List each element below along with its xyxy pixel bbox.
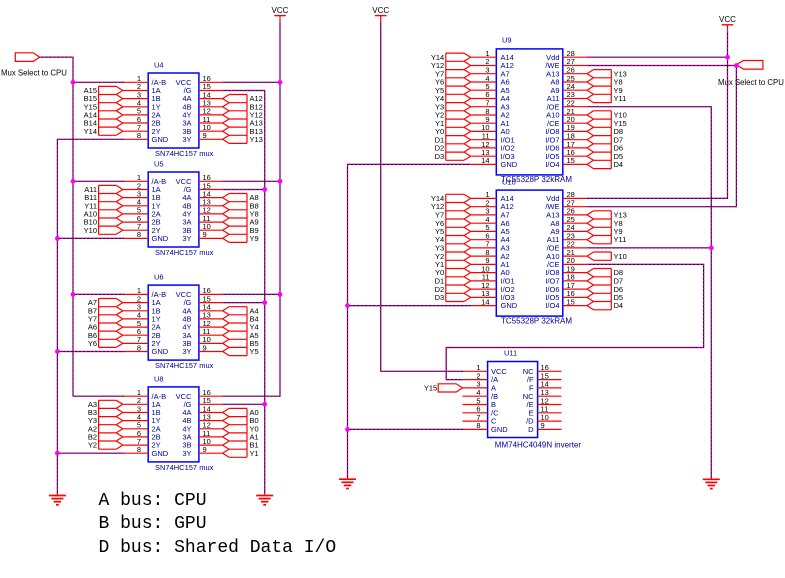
svg-text:Y5: Y5: [250, 347, 259, 356]
U10 pin 25 (A8): [550, 215, 587, 228]
wire: U9 pin28 branch: [587, 56, 728, 58]
U10 pin 9 (A1): [471, 256, 510, 269]
svg-text:Y11: Y11: [614, 235, 627, 244]
junction: GND net at U6 pin8: [55, 349, 60, 354]
U10 pin 12 (I/O2): [471, 281, 515, 294]
U10 pin 20 (/CE): [547, 256, 587, 269]
svg-text:D bus: Shared Data I/O: D bus: Shared Data I/O: [99, 538, 337, 558]
U8 pin 11 (3A): [182, 429, 222, 442]
U10 pin 21 (A10): [546, 248, 587, 261]
U10 pin 13 (I/O3): [471, 289, 515, 302]
wire: /OE net (U9 pin22, U10 pin22 to ground): [587, 107, 711, 478]
U10 pin 19 (I/O8): [545, 264, 587, 277]
svg-text:U6: U6: [154, 273, 164, 282]
U10 pin 24 (A9): [550, 223, 587, 236]
U10 pin 3 (A7): [471, 207, 510, 220]
U8 pin 15 (/G): [184, 396, 223, 409]
U8 pin 10 (3B): [182, 437, 222, 450]
U5 left input bus taps: [99, 185, 123, 234]
U9 pin 23 (A11): [547, 90, 587, 103]
U11 pin 11 (E): [529, 405, 562, 418]
svg-text:Y13: Y13: [250, 135, 263, 144]
U4 pin 1 (/A-B): [123, 74, 166, 87]
svg-text:8: 8: [137, 445, 141, 454]
U8 pin 4 (1Y): [123, 412, 161, 425]
U9 pin 18 (I/O7): [545, 132, 587, 145]
svg-text:3Y: 3Y: [182, 234, 191, 243]
U4 pin 5 (2A): [123, 107, 161, 120]
U6 pin 13 (4B): [182, 311, 222, 324]
U6 left input bus taps: [99, 299, 123, 348]
U10 pin 17 (I/O6): [545, 281, 587, 294]
U4 pin 13 (4B): [182, 99, 222, 112]
svg-text:Y11: Y11: [614, 94, 627, 103]
U9 pin 24 (A9): [550, 82, 587, 95]
U8 pin 1 (/A-B): [123, 388, 166, 401]
svg-text:TC55328P 32kRAM: TC55328P 32kRAM: [501, 316, 572, 325]
svg-text:Mux Select to CPU: Mux Select to CPU: [1, 68, 67, 77]
wire: U11 pin8 branch: [348, 428, 464, 430]
U4 pin 16 (VCC): [176, 74, 223, 87]
U5 pin 9 (3Y): [182, 230, 222, 243]
svg-text:9: 9: [203, 445, 207, 454]
U5 pin 14 (4A): [182, 189, 222, 202]
junction: /WE net at right flag tip: [734, 63, 739, 68]
svg-text:GND: GND: [501, 160, 518, 169]
U9 pin 21 (A10): [546, 107, 587, 120]
svg-text:Y10: Y10: [614, 252, 627, 261]
svg-text:Y6: Y6: [88, 339, 97, 348]
junction: select net at U6 pin1: [71, 292, 76, 297]
U11 pin 6 (/C): [463, 405, 500, 418]
U10 pin 1 (A14): [471, 190, 514, 203]
U9 pin 16 (I/O5): [545, 148, 587, 161]
U6 pin 14 (4A): [182, 303, 222, 316]
svg-text:15: 15: [567, 156, 575, 165]
svg-text:GND: GND: [501, 301, 518, 310]
IC U10 TC55328P 32kRAM body: [496, 190, 563, 316]
U6 pin 8 (GND): [123, 343, 169, 356]
wire: Mux Select net from left flag down left column (pin 1 of U4,U5,U6,U8): [40, 57, 73, 396]
svg-text:Y10: Y10: [84, 226, 97, 235]
wire: U6 pin1 branch: [73, 293, 124, 295]
U11 pin 3 (A): [463, 380, 497, 393]
U4 pin 15 (/G): [184, 82, 223, 95]
U10 pin 22 (/OE): [547, 240, 587, 253]
svg-text:VCC: VCC: [372, 6, 389, 15]
wire: U5 pin15 branch: [223, 189, 265, 191]
U5 pin 16 (VCC): [176, 173, 223, 186]
U11 pin 2 (/A): [463, 371, 499, 384]
junction: RAM GND at U10 pin14: [345, 303, 350, 308]
svg-text:9: 9: [203, 230, 207, 239]
U9 pin 27 (/WE): [545, 57, 587, 70]
U8 pin 8 (GND): [123, 445, 169, 458]
net flag Mux Select to CPU (right): [736, 61, 763, 70]
junction: VCC net at U4 pin16: [278, 80, 283, 85]
svg-text:SN74HC157 mux: SN74HC157 mux: [155, 149, 214, 158]
U4 pin 2 (1A): [123, 82, 161, 95]
svg-text:B bus: GPU: B bus: GPU: [99, 514, 207, 534]
svg-text:U9: U9: [502, 36, 512, 45]
U10 pin 2 (A12): [471, 199, 514, 212]
U6 pin 11 (3A): [182, 327, 222, 340]
wire: VCC net vertical (left VCC to pin 16 of U4,U5,U6,U8): [223, 22, 280, 397]
junction: VCC net at U6 pin16: [278, 292, 283, 297]
wire: /G net vertical (pin 15 of U4,U5,U6,U8 to ground): [223, 91, 265, 494]
U6 pin 16 (VCC): [176, 286, 223, 299]
U11 pin 1 (VCC): [463, 363, 508, 376]
junction: select net at U4 pin1: [71, 80, 76, 85]
power symbol VCC (right, RAM supply): [719, 15, 736, 31]
U9 pin 12 (I/O2): [471, 140, 515, 153]
U11 pin 12 (/E): [527, 396, 562, 409]
svg-text:3Y: 3Y: [182, 449, 191, 458]
U5 pin 12 (4Y): [182, 206, 222, 219]
svg-text:MM74HC4049N inverter: MM74HC4049N inverter: [495, 441, 582, 450]
U10 pin 7 (A3): [471, 240, 510, 253]
wire: U6 pin8 branch: [57, 351, 124, 353]
svg-text:14: 14: [481, 156, 489, 165]
svg-text:U11: U11: [504, 349, 517, 358]
svg-text:3Y: 3Y: [182, 135, 191, 144]
U10 pin 27 (/WE): [545, 199, 587, 212]
U10 pin 28 (Vdd): [546, 190, 587, 203]
U5 pin 7 (2Y): [123, 222, 161, 235]
U4 pin 10 (3B): [182, 123, 222, 136]
U9 pin 14 (GND): [471, 156, 518, 169]
U4 pin 11 (3A): [182, 115, 222, 128]
wire: U10 pin14 branch: [348, 305, 471, 307]
svg-text:9: 9: [541, 421, 545, 430]
U8 pin 16 (VCC): [176, 388, 223, 401]
wire: U10 pin22 branch: [587, 247, 711, 249]
junction: GND net at U8 pin8: [55, 451, 60, 456]
power symbol VCC (left, mux supply): [272, 6, 289, 22]
svg-text:GND: GND: [152, 135, 169, 144]
U10 right bus tap (pin 21): [587, 252, 611, 260]
U4 pin 8 (GND): [123, 131, 169, 144]
U9 pin 4 (A6): [471, 74, 510, 87]
U4 pin 9 (3Y): [182, 131, 222, 144]
U6 pin 9 (3Y): [182, 343, 222, 356]
U8 pin 3 (1B): [123, 404, 161, 417]
junction: GND net at U5 pin8: [55, 236, 60, 241]
U10 left address/data bus taps: [446, 194, 471, 301]
net flag Mux Select to CPU (left): [15, 53, 39, 62]
svg-text:8: 8: [137, 230, 141, 239]
U9 right bus taps (pins 21-15): [587, 111, 611, 169]
junction: /G net at U8 pin15: [262, 402, 267, 407]
U9 pin 19 (I/O8): [545, 123, 587, 136]
U4 pin 12 (4Y): [182, 107, 222, 120]
junction: VCC net at U5 pin16: [278, 179, 283, 184]
U4 pin 3 (1B): [123, 90, 161, 103]
wire: U10 /CE (pin20) to U11 pin2 output: [446, 264, 703, 379]
IC U8 SN74HC157 mux body: [148, 387, 199, 462]
svg-text:U8: U8: [154, 374, 164, 383]
U6 pin 2 (1A): [123, 294, 161, 307]
svg-text:SN74HC157 mux: SN74HC157 mux: [155, 248, 214, 257]
IC U6 SN74HC157 mux body: [148, 285, 199, 360]
U10 pin 18 (I/O7): [545, 273, 587, 286]
wire: mux GND net vertical (pin 8 of U4,U5,U6,U8 to ground): [57, 139, 124, 493]
wire: U6 pin15 branch: [223, 302, 265, 304]
U9 pin 25 (A8): [550, 74, 587, 87]
svg-text:I/O4: I/O4: [545, 301, 559, 310]
U11 pin 5 (B): [463, 396, 497, 409]
U5 pin 5 (2A): [123, 206, 161, 219]
IC U5 SN74HC157 mux body: [148, 172, 199, 247]
svg-text:D3: D3: [435, 293, 445, 302]
svg-text:D: D: [528, 425, 534, 434]
U9 pin 10 (A0): [471, 123, 510, 136]
U6 pin 3 (1B): [123, 303, 161, 316]
U8 pin 5 (2A): [123, 421, 161, 434]
U10 pin 15 (I/O4): [545, 297, 587, 310]
U9 left address/data bus taps: [446, 53, 471, 160]
U6 pin 5 (2A): [123, 319, 161, 332]
U6 pin 7 (2Y): [123, 335, 161, 348]
U9 pin 8 (A2): [471, 107, 510, 120]
svg-text:GND: GND: [152, 347, 169, 356]
U9 pin 5 (A5): [471, 82, 510, 95]
svg-text:3Y: 3Y: [182, 347, 191, 356]
U9 pin 15 (I/O4): [545, 156, 587, 169]
U11 pin 14 (F): [529, 380, 561, 393]
U8 left input bus taps: [99, 400, 123, 449]
U11 pin 10 (/D): [526, 413, 561, 426]
U11 pin 16 (NC): [523, 363, 562, 376]
svg-text:GND: GND: [491, 425, 508, 434]
U6 pin 6 (2B): [123, 327, 161, 340]
U5 pin 3 (1B): [123, 189, 161, 202]
U5 pin 13 (4B): [182, 198, 222, 211]
svg-text:8: 8: [137, 343, 141, 352]
U4 pin 7 (2Y): [123, 123, 161, 136]
U10 pin 14 (GND): [471, 297, 518, 310]
wire: RAM GND net (U9 pin14, U10 pin14, U11 pin8 to ground): [348, 164, 471, 477]
U5 pin 1 (/A-B): [123, 173, 166, 186]
svg-text:D4: D4: [614, 301, 624, 310]
U9 right address bus taps (pins 26-23): [587, 70, 611, 103]
U10 pin 23 (A11): [547, 232, 587, 245]
U10 pin 6 (A4): [471, 232, 510, 245]
U6 pin 15 (/G): [184, 294, 223, 307]
U9 pin 28 (Vdd): [546, 49, 587, 62]
U8 pin 13 (4B): [182, 412, 222, 425]
svg-text:8: 8: [476, 421, 480, 430]
U10 right data bus taps (pins 19-15): [587, 269, 611, 310]
IC U11 MM74HC4049N inverter body: [488, 362, 538, 438]
svg-text:9: 9: [203, 343, 207, 352]
U8 pin 7 (2Y): [123, 437, 161, 450]
junction: /G net at U6 pin15: [262, 300, 267, 305]
junction: /G net at U5 pin15: [262, 187, 267, 192]
U9 pin 17 (I/O6): [545, 140, 587, 153]
svg-text:D3: D3: [435, 152, 445, 161]
svg-text:Y9: Y9: [250, 234, 259, 243]
junction: VCC net at U9 pin28: [725, 55, 730, 60]
wire: U5 pin1 branch: [73, 180, 124, 182]
svg-text:15: 15: [567, 297, 575, 306]
U8 pin 14 (4A): [182, 404, 222, 417]
U11 pin 8 (GND): [463, 421, 509, 434]
svg-text:Y2: Y2: [88, 441, 97, 450]
U11 pin 15 (/F): [527, 371, 562, 384]
svg-text:U10: U10: [502, 178, 516, 187]
ground symbol (/G net): [256, 493, 273, 505]
U4 left input bus taps: [99, 86, 123, 135]
svg-text:9: 9: [203, 131, 207, 140]
U6 pin 4 (1Y): [123, 311, 161, 324]
U5 pin 2 (1A): [123, 181, 161, 194]
svg-text:14: 14: [481, 297, 489, 306]
wire: /WE net vertical to U10 pin27: [587, 66, 736, 207]
svg-text:8: 8: [137, 131, 141, 140]
svg-text:GND: GND: [152, 234, 169, 243]
U9 pin 22 (/OE): [547, 99, 587, 112]
svg-text:Y1: Y1: [250, 449, 259, 458]
U6 pin 10 (3B): [182, 335, 222, 348]
U6 pin 1 (/A-B): [123, 286, 166, 299]
wire: U6 pin16 branch: [223, 293, 280, 295]
U5 pin 15 (/G): [184, 181, 223, 194]
U9 pin 11 (I/O1): [471, 132, 515, 145]
junction: RAM GND at U11 pin8: [345, 427, 350, 432]
wire: U8 pin15 branch: [223, 403, 265, 405]
U10 pin 11 (I/O1): [471, 273, 515, 286]
svg-text:Y14: Y14: [84, 127, 97, 136]
wire: VCC to U11 pin 1: [381, 22, 463, 372]
U5 pin 11 (3A): [182, 214, 222, 227]
svg-text:Y15: Y15: [424, 384, 437, 393]
U4 right output bus taps: [223, 95, 247, 144]
U5 pin 6 (2B): [123, 214, 161, 227]
U5 pin 10 (3B): [182, 222, 222, 235]
wire: U8 pin1 branch: [73, 395, 124, 397]
U11 pin 7 (C): [463, 413, 498, 426]
wire: U8 pin8 branch: [57, 452, 124, 454]
U9 pin 7 (A3): [471, 99, 510, 112]
U9 pin 2 (A12): [471, 57, 514, 70]
U9 pin 3 (A7): [471, 66, 510, 79]
svg-text:U4: U4: [154, 60, 164, 69]
wire: U5 pin8 branch: [57, 237, 124, 239]
svg-text:A bus: CPU: A bus: CPU: [99, 491, 207, 511]
svg-text:GND: GND: [152, 449, 169, 458]
U11 pin 13 (NC): [523, 388, 562, 401]
net flag Y15 (U11 pin 3 input): [438, 384, 462, 392]
wire: U4 pin1 branch: [73, 81, 124, 83]
U5 right output bus taps: [223, 194, 247, 243]
U9 pin 26 (A13): [546, 66, 587, 79]
U10 pin 16 (I/O5): [545, 289, 587, 302]
U9 pin 13 (I/O3): [471, 148, 515, 161]
power symbol VCC (middle, U11 supply): [372, 6, 389, 22]
U8 pin 12 (4Y): [182, 421, 222, 434]
svg-text:VCC: VCC: [272, 6, 289, 15]
U10 pin 10 (A0): [471, 264, 510, 277]
svg-text:D4: D4: [614, 160, 624, 169]
U11 pin 4 (/B): [463, 388, 499, 401]
wire: /WE net (U9 pin27 to right flag and U10 pin27): [587, 65, 736, 67]
svg-text:SN74HC157 mux: SN74HC157 mux: [155, 463, 214, 472]
IC U9 TC55328P 32kRAM body: [496, 49, 563, 175]
U4 pin 4 (1Y): [123, 99, 161, 112]
U8 pin 2 (1A): [123, 396, 161, 409]
U10 pin 5 (A5): [471, 223, 510, 236]
U6 right output bus taps: [223, 307, 247, 356]
U9 pin 20 (/CE): [547, 115, 587, 128]
U9 pin 9 (A1): [471, 115, 510, 128]
U10 pin 4 (A6): [471, 215, 510, 228]
U4 pin 6 (2B): [123, 115, 161, 128]
wire: U4 pin16 branch: [223, 81, 280, 83]
U11 pin 9 (D): [528, 421, 561, 434]
U8 pin 9 (3Y): [182, 445, 222, 458]
svg-text:SN74HC157 mux: SN74HC157 mux: [155, 361, 214, 370]
U8 right output bus taps: [223, 408, 247, 457]
junction: select net at U5 pin1: [71, 179, 76, 184]
U5 pin 4 (1Y): [123, 198, 161, 211]
U8 pin 6 (2B): [123, 429, 161, 442]
IC U4 SN74HC157 mux body: [148, 73, 199, 148]
U6 pin 12 (4Y): [182, 319, 222, 332]
svg-text:I/O4: I/O4: [545, 160, 559, 169]
U5 pin 8 (GND): [123, 230, 169, 243]
U4 pin 14 (4A): [182, 90, 222, 103]
U9 pin 1 (A14): [471, 49, 514, 62]
U10 pin 26 (A13): [546, 207, 587, 220]
ground symbol (mux GND net): [49, 493, 66, 505]
U9 pin 6 (A4): [471, 90, 510, 103]
svg-text:VCC: VCC: [719, 15, 736, 24]
wire: U5 pin16 branch: [223, 180, 280, 182]
ground symbol (/OE net): [703, 477, 720, 489]
junction: /OE net at U10 pin22: [709, 246, 714, 251]
svg-text:U5: U5: [154, 159, 164, 168]
U10 right address bus taps (pins 26-23): [587, 211, 611, 244]
U10 pin 8 (A2): [471, 248, 510, 261]
ground symbol (RAM/U11 GND net): [339, 477, 356, 489]
wire: right VCC to U9 pin28 and U10 pin28: [587, 31, 728, 198]
